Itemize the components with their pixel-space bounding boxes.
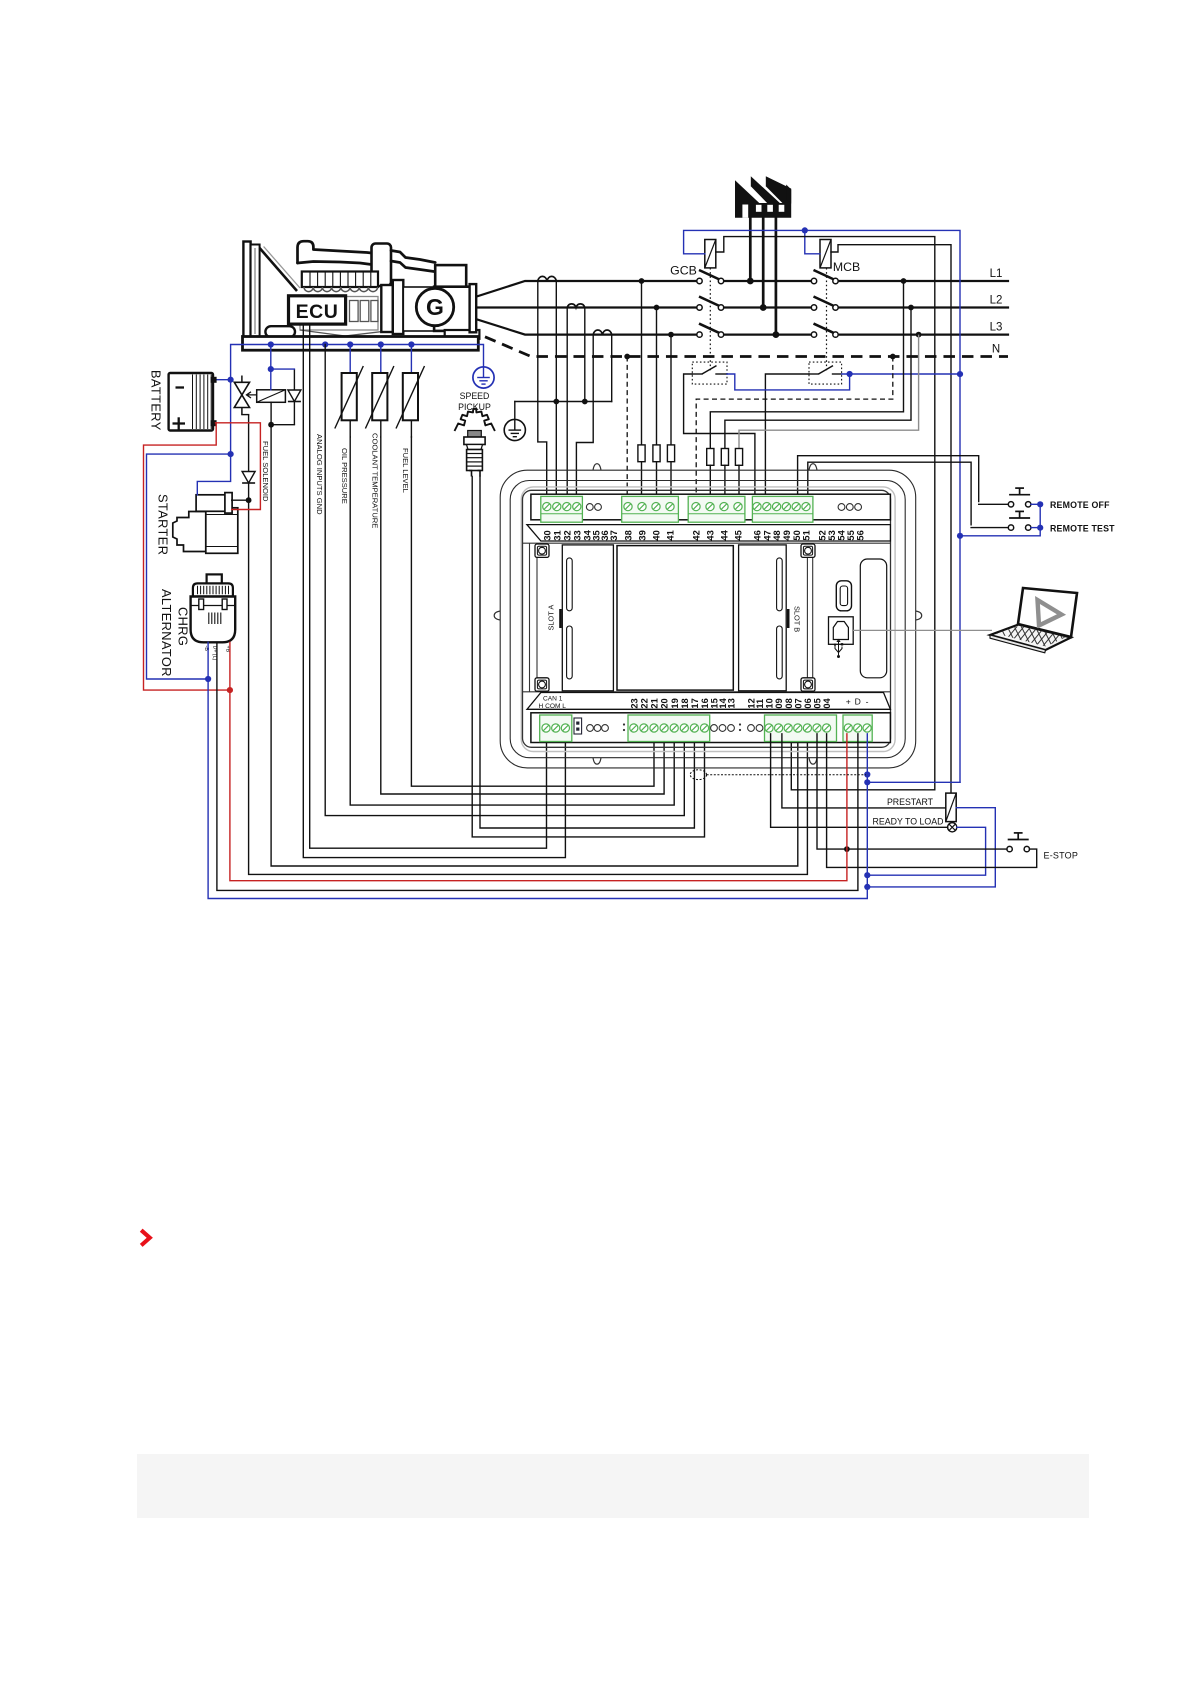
wire: coolant temperature sender to terminal 20: [381, 437, 664, 794]
current transformer CT3 (L3): [593, 330, 612, 335]
wire: MCB aux feedback to terminal 47: [765, 374, 809, 502]
valve: fuel solenoid (bowtie symbol with arrow): [234, 376, 256, 415]
svg-text:33: 33: [572, 530, 582, 540]
wire: aux contacts common (blue): [727, 371, 960, 390]
svg-text:REMOTE OFF: REMOTE OFF: [1050, 500, 1110, 510]
svg-text:42: 42: [692, 530, 702, 540]
ground: CT earth symbol: [504, 419, 525, 440]
terminal strip holes 34-35: [586, 504, 593, 511]
lamp READY TO LOAD: [873, 817, 957, 832]
svg-text:49: 49: [782, 530, 792, 540]
charging alternator G2: [191, 574, 236, 642]
terminal block 23-16: [628, 715, 710, 742]
svg-text:-: -: [866, 697, 869, 707]
wire: bowtie to diode link: [242, 414, 249, 416]
svg-text:23: 23: [629, 698, 639, 708]
svg-text:10: 10: [765, 698, 775, 708]
svg-text:11: 11: [755, 699, 765, 709]
pushbutton REMOTE OFF: [979, 488, 1110, 510]
breaker GCB coil: [705, 240, 716, 268]
wire: mains L3 sense (gray) + fuse F6 to terminal 45: [735, 335, 918, 503]
controller top number band: [527, 525, 891, 541]
svg-text:47: 47: [762, 530, 772, 540]
breaker MCB poles (contacts and blades): [811, 270, 838, 337]
terminal strip holes 52-56: [838, 504, 845, 511]
svg-text:STARTER: STARTER: [156, 494, 171, 555]
svg-text:32: 32: [562, 530, 572, 540]
svg-text:GCB: GCB: [670, 264, 697, 278]
relay coil PRESTART: [887, 793, 956, 822]
svg-text:22: 22: [640, 698, 650, 708]
svg-text:53: 53: [827, 530, 837, 540]
breaker GCB poles (contacts and blades): [697, 270, 724, 337]
breaker MCB linkage (dotted): [826, 268, 828, 371]
svg-text:56: 56: [856, 530, 866, 540]
controller right door: [860, 559, 886, 678]
wire: mains L2 sense + fuse F5 to terminal 44: [721, 308, 911, 503]
generator block with G symbol: [416, 265, 479, 339]
svg-text:L3: L3: [990, 322, 1003, 334]
svg-text:D: D: [855, 697, 861, 707]
CAN termination jumper: [574, 718, 582, 734]
wire: gen L3 voltage sense + fuse F3 to terminal 41: [667, 335, 674, 503]
wire: neutral line N (dashed): [485, 337, 1008, 360]
factory / load icon: [735, 176, 791, 218]
svg-text:55: 55: [846, 530, 856, 540]
sensor: COOLANT TEMPERATURE (resistive sender R): [365, 345, 394, 438]
svg-text:COOLANT TEMPERATURE: COOLANT TEMPERATURE: [371, 433, 380, 528]
svg-text:ANALOG INPUTS GND: ANALOG INPUTS GND: [315, 434, 324, 515]
wire: ECU CAN H to controller: [310, 324, 547, 848]
terminal block 46-51: [752, 496, 813, 522]
wire: blue crank supply battery- to starter solenoid: [147, 380, 234, 682]
svg-text:51: 51: [802, 530, 812, 540]
wire: gen L2 voltage sense + fuse F2 to terminal 40: [653, 308, 660, 503]
pushbutton E-STOP: [817, 734, 1078, 868]
wire: load feeder L1 (thick): [747, 218, 754, 285]
footer gray box: [137, 1454, 1089, 1518]
terminal block 10-04: [765, 715, 837, 742]
svg-text:ALTERNATOR: ALTERNATOR: [159, 589, 174, 677]
svg-text:MCB: MCB: [833, 260, 860, 274]
laptop computer: [853, 588, 1094, 653]
breaker MCB aux contact (dotted box): [809, 362, 842, 384]
wire: prestart output from terminal 09: [782, 734, 946, 808]
wire: gen L1 voltage sense + fuse F1 to terminal 39: [638, 281, 645, 502]
svg-text:PICKUP: PICKUP: [458, 402, 491, 412]
svg-text:52: 52: [818, 530, 828, 540]
wire: remote test feed from terminal 51: [808, 462, 971, 525]
wire: ready-to-load lamp blue return: [864, 827, 985, 878]
svg-text:REMOTE TEST: REMOTE TEST: [1050, 523, 1115, 533]
wire: starter solenoid signal to terminal 06: [232, 497, 808, 874]
terminal block +D-: [843, 715, 872, 742]
svg-text:43: 43: [706, 530, 716, 540]
node: top terminal numbers: [542, 529, 865, 540]
svg-text:05: 05: [813, 698, 823, 708]
wire: remote off feed from terminal 50: [798, 456, 979, 503]
sensor: FUEL LEVEL (resistive sender R): [396, 345, 425, 438]
terminal block 30-33: [541, 496, 583, 522]
wire: blue control bus (top) to GCB and MCB coils: [684, 227, 964, 782]
svg-text:21: 21: [650, 698, 660, 708]
svg-text:31: 31: [552, 530, 562, 540]
svg-text:54: 54: [837, 529, 847, 540]
wire: speed pickup to terminal 17: [480, 477, 694, 829]
svg-text:N: N: [992, 344, 1000, 356]
terminal block 42-45: [688, 496, 745, 522]
wire: L1 gap between GCB poles handled above; MCB pole gap L1: [697, 278, 839, 338]
diode D1: [288, 369, 301, 425]
node: bottom terminal numbers: [629, 697, 832, 708]
controller display window: [617, 546, 733, 691]
wire: analog inputs gnd to terminal 18: [325, 345, 684, 816]
svg-text:SLOT A: SLOT A: [547, 605, 556, 631]
svg-text:04: 04: [822, 697, 832, 708]
controller bottom terminal strip: [531, 713, 891, 743]
pushbutton REMOTE TEST: [971, 511, 1115, 533]
svg-text:44: 44: [720, 529, 730, 540]
svg-text:39: 39: [638, 530, 648, 540]
generator set engine icon: [243, 241, 435, 337]
wire: oil pressure sender to terminal 19: [350, 437, 674, 805]
starter motor M1: [173, 493, 238, 554]
wire: red battery plus to starter: [144, 423, 261, 693]
wire: blue sensor supply bus under genset: [216, 341, 484, 382]
svg-text:L1: L1: [990, 268, 1003, 280]
svg-text:41: 41: [666, 530, 676, 540]
diode D2 (crank output): [242, 415, 255, 501]
current transformer CT1 (L1): [538, 276, 557, 281]
wire: battery minus blue bus to controller - terminal: [208, 642, 870, 898]
svg-text:09: 09: [774, 698, 784, 708]
wire: alternator +B red: [229, 642, 231, 690]
svg-text:SPEED: SPEED: [460, 391, 490, 401]
wire: CT common return with earth: [515, 281, 612, 419]
ground: blue earth symbol (gen body earth): [473, 367, 494, 388]
wire: blue link to remote/coil vertical: [867, 781, 960, 783]
wire: MCB close command (coil to PRESTART coil top): [831, 245, 951, 793]
wire: fuel solenoid output (black) down to nest: [268, 402, 798, 866]
svg-text:OIL PRESSURE: OIL PRESSURE: [340, 448, 349, 504]
svg-text:SLOT B: SLOT B: [793, 606, 802, 632]
svg-text:20: 20: [660, 698, 670, 708]
svg-text:30: 30: [542, 530, 552, 540]
controller USB mini port: [836, 581, 851, 611]
wire: CT common to terminal 31: [555, 402, 557, 503]
svg-text:18: 18: [680, 698, 690, 708]
svg-text:06: 06: [803, 698, 813, 708]
wire: phase line L3: [477, 319, 1008, 337]
svg-text:50: 50: [792, 530, 802, 540]
controller InteliLite outer case: [500, 470, 916, 768]
ECU box: [289, 296, 346, 324]
genset base skid: [243, 337, 479, 351]
svg-text:FUEL SOLENOID: FUEL SOLENOID: [261, 441, 270, 502]
svg-text:H COM L: H COM L: [539, 703, 567, 710]
svg-text:17: 17: [690, 698, 700, 708]
bottom strip holes group 1: [587, 725, 594, 732]
svg-text:16: 16: [700, 698, 710, 708]
svg-text:+: +: [846, 697, 851, 707]
terminal block CAN: [540, 715, 572, 742]
sensor: OIL PRESSURE (resistive sender R): [335, 345, 364, 438]
svg-text:19: 19: [670, 698, 680, 708]
controller inner panel frame: [523, 543, 891, 692]
wire: mains neutral sense (dashed) to terminal 42: [696, 357, 893, 503]
wire: prestart coil blue return: [864, 808, 995, 890]
wire: GCB aux feedback to terminal 46: [684, 374, 755, 502]
wire: charge D+ to controller D terminal: [217, 642, 858, 890]
svg-text:BATTERY: BATTERY: [149, 370, 164, 431]
cable shield marker (dashed ellipse) and drain to minus: [690, 770, 866, 780]
svg-text:13: 13: [727, 698, 737, 708]
breaker MCB coil: [820, 240, 831, 268]
svg-text:G: G: [426, 294, 444, 320]
svg-text:37: 37: [609, 530, 619, 540]
battery B1: [169, 373, 217, 431]
svg-text:46: 46: [753, 530, 763, 540]
svg-text:E-STOP: E-STOP: [1044, 851, 1079, 861]
wire: CT1 k lead to terminal 30: [538, 281, 547, 502]
svg-text:48: 48: [772, 530, 782, 540]
wire: ECU CAN L to controller: [303, 324, 565, 858]
svg-text:PRESTART: PRESTART: [887, 797, 934, 807]
svg-text:45: 45: [734, 530, 744, 540]
wire: mains L1 sense + fuse F4 to terminal 43: [707, 281, 904, 502]
controller SLOT B panel: [739, 545, 802, 691]
wire: GCB close command (coil to terminal 08 via right side): [716, 237, 935, 790]
wire: gen neutral sense (dashed) to terminal 38: [626, 357, 628, 503]
wire: speed pickup to terminal 16: [472, 477, 704, 837]
svg-text:CHRG: CHRG: [176, 607, 191, 646]
svg-text:CAN 1: CAN 1: [543, 696, 563, 703]
svg-text:FUEL LEVEL: FUEL LEVEL: [401, 448, 410, 493]
svg-text:ECU: ECU: [296, 301, 339, 323]
relay coil: fuel solenoid relay: [257, 390, 286, 403]
svg-text:40: 40: [652, 530, 662, 540]
wire: load feeder L3 (thick): [773, 218, 780, 339]
wire: fuel level sender to terminal 21: [411, 437, 654, 786]
red chevron bullet: [141, 1230, 150, 1245]
bottom strip holes group 2: [711, 725, 718, 732]
wire: phase line L2: [477, 305, 1008, 311]
wire: blue battery minus to fuel solenoid branch: [268, 345, 295, 390]
controller SLOT A panel: [547, 545, 614, 691]
svg-text:READY TO LOAD: READY TO LOAD: [873, 817, 944, 827]
wire: ready-to-load from terminal 10: [771, 734, 948, 828]
controller mounting tabs: [494, 464, 922, 765]
current transformer CT2 (L2): [567, 304, 585, 308]
wire: CT2 k lead to terminal 32: [566, 308, 568, 503]
node: USB symbol: [834, 640, 843, 658]
controller bottom number band: [527, 693, 890, 710]
wire: battery plus red bus to controller + terminal: [230, 690, 847, 881]
svg-text:38: 38: [624, 530, 634, 540]
controller corner screws: [535, 544, 549, 557]
controller top terminal strip: [531, 494, 891, 520]
breaker GCB linkage (dotted): [709, 268, 711, 371]
wire: load feeder L2 (thick): [760, 218, 767, 311]
terminal block 38-41: [622, 496, 679, 522]
controller USB-B port: [829, 617, 854, 645]
svg-text:08: 08: [784, 698, 794, 708]
svg-text:07: 07: [793, 698, 803, 708]
breaker GCB aux contact (dotted box): [692, 362, 727, 384]
wire: remote buttons blue return: [960, 504, 1040, 536]
svg-text:L2: L2: [990, 295, 1003, 307]
sensor: speed pickup (gear + probe): [455, 409, 495, 477]
wire: CT3 k lead to terminal 33: [576, 335, 593, 503]
wire: phase line L1: [477, 278, 1008, 296]
